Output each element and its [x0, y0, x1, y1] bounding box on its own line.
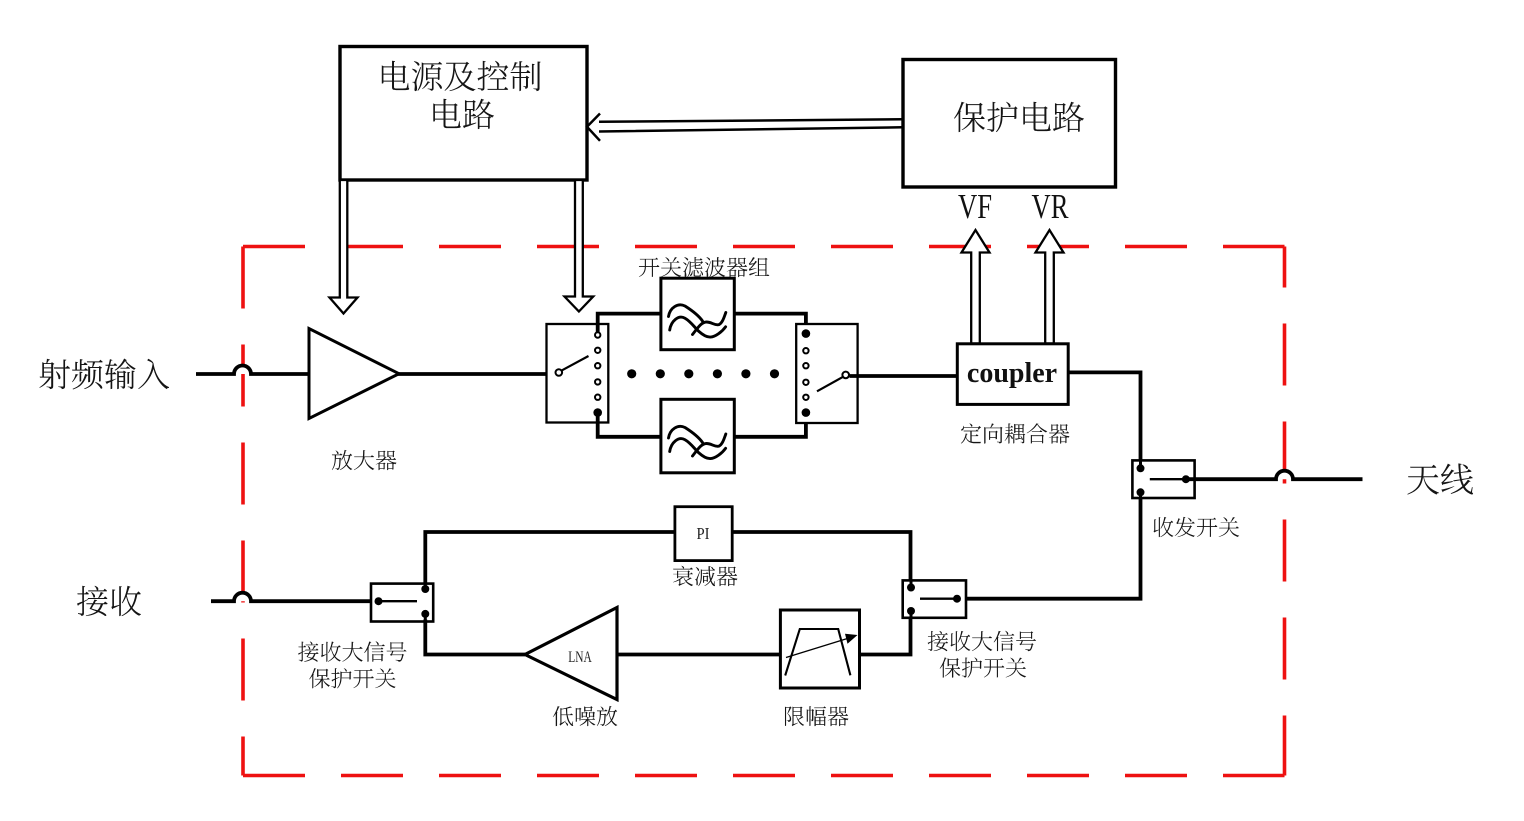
detector output arrow VF (up from coupler) — [962, 230, 990, 344]
label 接收大信号保护开关 (right, line 1) — [928, 631, 1036, 651]
switch S1 input (SP6T box) — [547, 324, 609, 423]
label 保护开关 (right, line 2) — [940, 657, 1026, 677]
amplifier A1 (triangle) — [309, 329, 399, 419]
svg-text:coupler: coupler — [967, 358, 1057, 389]
wire T/R switch to antenna with crossover hop — [1186, 471, 1363, 480]
label 定向耦合器 (directional coupler) — [961, 423, 1069, 443]
label 接收大信号保护开关 (left, line 1) — [298, 641, 406, 661]
wire F1 to switch S2 top throw — [734, 314, 806, 334]
wire S4 top to attenuator (bypass rail) — [425, 532, 675, 585]
svg-text:VF: VF — [958, 187, 992, 226]
wire RF input with crossover hop — [196, 366, 556, 375]
label 低噪放 (LNA) — [553, 706, 617, 726]
red dashed module boundary (right edge) — [1283, 247, 1287, 776]
low-noise amplifier LNA (triangle, points left) — [525, 608, 617, 700]
port label 射频输入 (RF input) — [39, 358, 169, 389]
label 限幅器 (limiter) — [785, 706, 848, 726]
detector output arrow VR (up from coupler) — [1036, 230, 1064, 344]
svg-text:LNA: LNA — [568, 649, 592, 666]
red dashed module boundary (top edge) — [243, 245, 1285, 249]
port label 天线 (antenna) — [1407, 463, 1473, 494]
wire limiter to LNA — [617, 653, 780, 657]
wire S4 bottom to LNA — [425, 620, 525, 655]
label 开关滤波器组 (switched filter bank) — [639, 257, 769, 277]
filter F1 (top bandpass filter box) — [661, 278, 734, 350]
label 收发开关 (T/R switch) — [1154, 517, 1240, 537]
wire coupler to T/R switch — [1068, 372, 1140, 461]
directional coupler U3 — [957, 344, 1068, 405]
receive protection switch S4 (SPDT box) — [371, 584, 433, 622]
label 衰减器 (attenuator) — [673, 566, 737, 586]
svg-text:PI: PI — [697, 524, 710, 543]
wire attenuator to S5 top — [732, 532, 911, 582]
red dashed module boundary (left edge) — [241, 247, 245, 776]
power & control circuit box U1 电源及控制电路 — [340, 47, 587, 181]
port label 接收 (receive) — [77, 586, 141, 616]
wire S2 to coupler — [850, 374, 959, 378]
filter F2 (bottom bandpass filter box) — [661, 399, 734, 473]
ellipsis dots (more filter channels) — [627, 369, 779, 378]
net label VF — [958, 187, 992, 226]
power feed arrow to amplifier (double-line, down) — [330, 180, 358, 314]
svg-text:VR: VR — [1032, 187, 1069, 226]
label 保护开关 (left, line 2) — [309, 668, 395, 688]
switch S2 output (SP6T box) — [796, 324, 857, 423]
T/R switch S3 收发开关 (SPDT box) — [1132, 460, 1194, 498]
protection circuit box U2 保护电路 — [903, 60, 1116, 188]
red dashed module boundary (bottom edge) — [243, 774, 1285, 778]
power feed arrow to switch filter bank (double-line, down) — [565, 180, 594, 312]
label 放大器 (amplifier) — [332, 450, 396, 470]
wire T/R switch to receive protection switch S5 — [960, 498, 1141, 599]
wire S1 top throw to filter F1 — [598, 314, 661, 333]
net label VR — [1032, 187, 1069, 226]
wire F2 to switch S2 bottom throw — [734, 413, 806, 437]
wire S1 bottom throw to filter F2 — [598, 413, 661, 437]
wire receive output with crossover hop — [211, 593, 376, 602]
limiter box 限幅器 — [780, 610, 859, 688]
control signal arrow (protection to power, double-line) — [587, 114, 903, 141]
wire S5 bottom to limiter — [860, 617, 911, 655]
attenuator box PI 衰减器 — [675, 507, 732, 561]
receive protection switch S5 (SPDT box) — [903, 580, 966, 617]
